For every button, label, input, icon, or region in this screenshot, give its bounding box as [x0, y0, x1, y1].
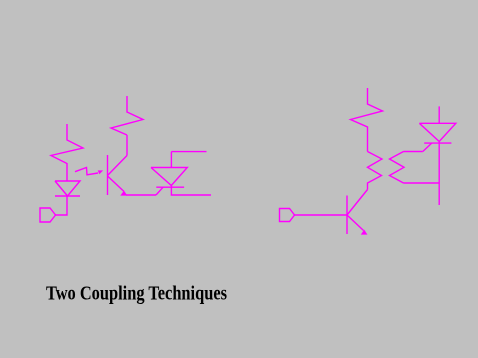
wire [404, 151, 423, 153]
connector J2 [280, 209, 295, 222]
LED D1 [55, 181, 80, 196]
resistor R1 [51, 124, 83, 181]
wire [171, 151, 206, 153]
wire [126, 135, 128, 156]
wire [56, 196, 68, 215]
SCR1 gate wire [156, 187, 163, 195]
connector J1 [40, 208, 56, 222]
resistor R3 [351, 88, 383, 152]
wire [171, 186, 211, 196]
transformer T1 primary [368, 152, 383, 190]
thyristor SCR2 [419, 106, 455, 143]
wire [404, 182, 440, 184]
thyristor SCR1 [151, 152, 187, 188]
svg-text:Two Coupling Techniques: Two Coupling Techniques [46, 283, 227, 305]
transformer T1 secondary [390, 152, 405, 184]
wire [295, 214, 348, 216]
SCR2 gate wire [423, 143, 432, 151]
light arrow [75, 168, 103, 175]
transistor Q2 [347, 190, 368, 235]
wire [126, 194, 156, 196]
transistor Q1 [108, 155, 128, 196]
resistor R2 [111, 96, 143, 135]
wire [438, 142, 440, 206]
